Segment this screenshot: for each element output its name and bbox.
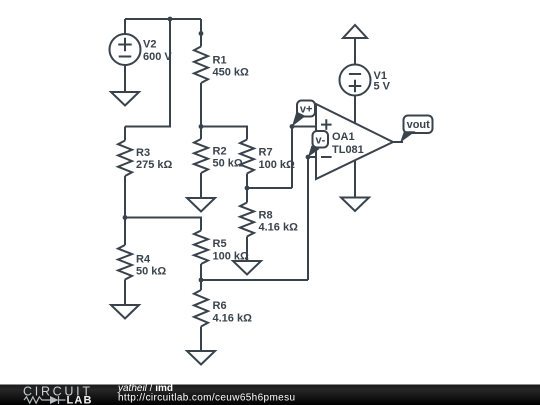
wire: top rail V2+ to R1 top [125, 18, 201, 20]
svg-text:R3: R3 [136, 147, 150, 159]
resistor R8 [240, 203, 254, 237]
wire: R5 bottom lead [200, 264, 202, 280]
op-amp + input marker [321, 119, 332, 130]
resistor R5 [194, 231, 208, 265]
wire: v- riser up to op-amp - input [308, 157, 316, 280]
wire: R1 top column [200, 19, 202, 47]
wire: R3 bottom lead [124, 176, 126, 218]
ground (V2) [111, 92, 139, 106]
op-amp OA1 (TL081) [316, 104, 393, 179]
wire: V1 bottom / op-amp supply to ground [354, 95, 356, 198]
resistor R6 [194, 290, 208, 327]
svg-text:OA1: OA1 [332, 131, 355, 143]
svg-text:V2: V2 [143, 39, 156, 51]
svg-text:50 kΩ: 50 kΩ [213, 158, 243, 170]
net flag v+ [297, 101, 315, 117]
wire: node A to R7 top [201, 127, 247, 140]
svg-text:100 kΩ: 100 kΩ [259, 159, 296, 171]
op-amp - input marker [321, 156, 332, 158]
svg-text:600 V: 600 V [143, 51, 172, 63]
svg-text:R8: R8 [259, 210, 273, 222]
net flag vout [404, 116, 433, 134]
voltage source V2 [110, 34, 141, 65]
CircuitLab logo schematic glyph (resistor + diode) [24, 396, 66, 404]
svg-text:R1: R1 [213, 55, 227, 67]
ground (R4) [111, 305, 139, 319]
power symbol above V1 [343, 25, 367, 38]
node: top rail junction [168, 17, 173, 22]
wire: node B to R5 top [125, 218, 201, 231]
resistor R1 [194, 47, 208, 84]
node: node v+ net (R7/R8 junction) [245, 186, 250, 191]
wire: v+ riser up to op-amp + input [292, 127, 316, 189]
svg-text:http://circuitlab.com/ceuw65h6: http://circuitlab.com/ceuw65h6pmesu [118, 392, 295, 403]
wire: R2 top lead [200, 127, 202, 140]
svg-text:R7: R7 [259, 147, 273, 159]
voltage source V1 [340, 65, 371, 96]
resistor R7 [240, 140, 254, 174]
node: node A (R1/R2/R7 junction) [199, 124, 204, 129]
svg-text:vout: vout [407, 119, 431, 131]
node: R1 top terminal [199, 31, 204, 36]
svg-text:v+: v+ [300, 104, 313, 116]
ground (R8) [233, 261, 261, 275]
wire: R5/R6 junction to v- riser [201, 279, 308, 281]
wire: R4 top lead [124, 218, 126, 246]
wire: V2 negative lead to ground [124, 65, 126, 92]
svg-text:450 kΩ: 450 kΩ [213, 67, 250, 79]
wire: V2 positive lead [124, 19, 126, 34]
ground (R6) [187, 351, 215, 365]
wire: R8 bottom to ground [246, 237, 248, 262]
wire: R8 top lead [246, 188, 248, 203]
svg-text:LAB: LAB [67, 395, 92, 405]
resistor R3 [118, 141, 132, 177]
svg-text:R4: R4 [136, 254, 151, 266]
svg-text:R2: R2 [213, 146, 227, 158]
svg-text:5 V: 5 V [374, 81, 391, 93]
svg-text:R5: R5 [213, 238, 227, 250]
wire: R6 top lead [200, 280, 202, 290]
node: v+ tap [290, 124, 295, 129]
svg-text:4.16 kΩ: 4.16 kΩ [259, 222, 299, 234]
wire: R7/R8 junction to v+ riser [247, 187, 292, 189]
wire: op-amp output [393, 141, 403, 143]
node: node v- net (R5/R6 junction) [199, 278, 204, 283]
svg-text:TL081: TL081 [332, 144, 364, 156]
wire: R2 bottom to ground [200, 173, 202, 198]
svg-text:275 kΩ: 275 kΩ [136, 159, 173, 171]
wire: R3 top lead [124, 127, 126, 141]
wire: R4 bottom to ground [124, 280, 126, 306]
ground (op-amp V- supply) [341, 198, 369, 212]
wire: V1 top lead from power symbol [354, 38, 356, 65]
wire: R6 bottom to ground [200, 327, 202, 352]
node: node B (R3/R4/R5 junction) [123, 215, 128, 220]
net flag v- [313, 131, 329, 148]
svg-text:50 kΩ: 50 kΩ [136, 266, 166, 278]
svg-text:4.16 kΩ: 4.16 kΩ [213, 313, 253, 325]
node: v- tap [306, 155, 311, 160]
wire: R7 bottom lead [246, 174, 248, 189]
resistor R4 [118, 245, 132, 280]
svg-text:R6: R6 [213, 300, 227, 312]
resistor R2 [194, 139, 208, 173]
wire: R1 bottom to node A [200, 83, 202, 127]
wire: middle riser from top rail down to R3 top [125, 19, 170, 127]
ground (R2) [187, 198, 215, 212]
svg-text:v-: v- [316, 135, 326, 147]
